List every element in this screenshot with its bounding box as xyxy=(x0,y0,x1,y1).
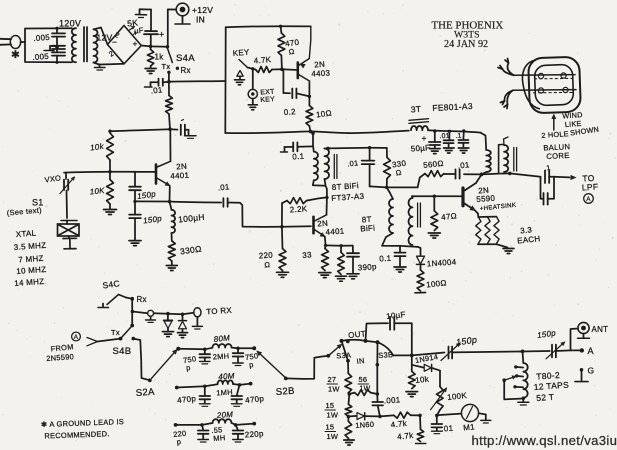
svg-text:8T BiFi: 8T BiFi xyxy=(332,181,360,192)
svg-text:50µF: 50µF xyxy=(411,143,431,153)
svg-text:OUT: OUT xyxy=(348,329,367,340)
wire to 10k bias top xyxy=(110,129,170,131)
wire keyed 12V rail bottom xyxy=(225,131,408,134)
svg-text:2N: 2N xyxy=(176,162,187,172)
svg-text:52 T: 52 T xyxy=(536,392,555,403)
capacitor .1 rail xyxy=(462,131,464,140)
wire emitter bus xyxy=(326,244,342,246)
diode 1N4004 xyxy=(420,248,422,256)
svg-text:.1: .1 xyxy=(455,133,462,140)
transistor Q4 2N5590 xyxy=(461,188,464,206)
wire secondary to bridge xyxy=(94,28,108,45)
diode 1N914 xyxy=(412,365,424,368)
svg-text:40M: 40M xyxy=(218,371,235,381)
svg-text:4.7k: 4.7k xyxy=(390,419,407,430)
svg-text:1W: 1W xyxy=(328,385,340,394)
svg-text:S3A: S3A xyxy=(336,350,351,360)
resistor 10k xyxy=(411,355,413,371)
svg-text:Ω: Ω xyxy=(264,260,271,269)
capacitor .01 rail xyxy=(448,131,450,140)
svg-text:IN: IN xyxy=(196,15,205,25)
svg-text:2.2K: 2.2K xyxy=(290,204,309,214)
svg-text:4401: 4401 xyxy=(325,226,345,236)
ground secondary xyxy=(99,65,101,68)
node 40M left xyxy=(177,386,205,387)
svg-text:✱: ✱ xyxy=(11,49,20,61)
node T80 top xyxy=(521,350,525,354)
svg-text:.01: .01 xyxy=(217,182,230,192)
arrow Tx feed xyxy=(87,338,98,342)
node 20M left xyxy=(176,424,202,426)
wire S4B to S2A xyxy=(133,339,150,381)
balun core drawing xyxy=(528,57,581,114)
resistor 100 ohm xyxy=(420,264,422,270)
svg-text:1W: 1W xyxy=(327,432,339,441)
transformer T1 left winding xyxy=(312,146,315,152)
node Rx xyxy=(130,297,134,301)
arrow wind like shown xyxy=(553,116,555,130)
svg-text:7 MHZ: 7 MHZ xyxy=(18,254,44,265)
ground 330 xyxy=(171,261,173,265)
ground 100 ohm xyxy=(415,292,426,294)
svg-text:Rx: Rx xyxy=(137,295,147,304)
node Tx keyed rail xyxy=(167,80,171,84)
node S3B out xyxy=(393,354,412,356)
variable capacitor 150p second xyxy=(551,345,553,358)
resistor 1k xyxy=(150,46,152,49)
jack RFC small xyxy=(148,310,154,316)
key jack switch xyxy=(239,60,248,68)
capacitor 750p right xyxy=(237,348,239,353)
wire S2B to S3A xyxy=(286,356,329,379)
resistor collector load Q1 xyxy=(168,82,170,96)
svg-text:MH: MH xyxy=(213,433,226,443)
svg-text:4.7K: 4.7K xyxy=(253,55,272,66)
wire to A xyxy=(556,349,571,352)
transformer T3 output winding xyxy=(498,145,500,174)
capacitor .01 coupling xyxy=(464,173,482,175)
ground crystal xyxy=(64,248,76,250)
capacitor .01 bypass xyxy=(158,79,160,86)
svg-text:M1: M1 xyxy=(463,422,476,432)
svg-text:+: + xyxy=(133,39,138,49)
wire to diode xyxy=(400,246,418,247)
ground 150p xyxy=(129,240,141,242)
resistor 4.7k shunt xyxy=(419,415,422,429)
svg-text:24 JAN 92: 24 JAN 92 xyxy=(444,39,488,50)
svg-text:ANT: ANT xyxy=(592,325,609,334)
svg-text:33: 33 xyxy=(302,250,312,260)
wire T1 top node xyxy=(328,147,370,150)
resistor 10 ohm xyxy=(308,81,310,106)
wire cap to 330 bottom xyxy=(370,186,387,187)
transformer core xyxy=(83,27,85,62)
diode clamp 2 xyxy=(182,314,184,320)
inductor 1MH 40M xyxy=(205,384,218,386)
terminal ANT xyxy=(578,322,589,333)
svg-text:XTAL: XTAL xyxy=(16,229,37,239)
inductor PA collector choke xyxy=(481,133,487,150)
inductor 2MH 80M xyxy=(205,348,213,350)
inductor T80-2 tapped xyxy=(522,351,525,363)
svg-text:Ω: Ω xyxy=(288,47,295,57)
transformer T2 primary xyxy=(387,187,393,199)
svg-text:A: A xyxy=(588,346,594,356)
capacitor .001 xyxy=(376,394,378,402)
capacitor 150p lower xyxy=(134,201,136,214)
svg-text:27: 27 xyxy=(328,375,337,384)
svg-text:Tx: Tx xyxy=(111,328,120,337)
svg-text:S2B: S2B xyxy=(275,386,295,398)
taps xyxy=(516,366,523,369)
svg-text:S4B: S4B xyxy=(113,346,132,357)
wire T1 bottom node xyxy=(325,179,326,186)
ground 47 ohm xyxy=(428,232,440,234)
svg-text:15: 15 xyxy=(326,423,335,432)
inductor .55MH 20M xyxy=(202,423,213,425)
transformer T3 core xyxy=(513,148,515,172)
svg-text:Ω: Ω xyxy=(395,168,402,178)
terminal +12V IN xyxy=(176,3,189,16)
svg-text:20M: 20M xyxy=(216,410,234,420)
wire base rail xyxy=(64,171,154,174)
ground line-filter xyxy=(50,45,57,47)
ground meter xyxy=(479,413,486,414)
transformer T2 core xyxy=(417,203,419,227)
switch S4A xyxy=(168,49,173,63)
wire tap return xyxy=(504,380,523,399)
node diode clamp 1 xyxy=(166,312,170,316)
balun lead twists upper xyxy=(503,63,515,75)
svg-text:3.3: 3.3 xyxy=(520,225,533,235)
node detector in xyxy=(347,415,351,419)
ground key jack xyxy=(235,79,245,81)
svg-text:S3B: S3B xyxy=(378,350,393,360)
resistor 4.7k series xyxy=(380,415,394,416)
svg-text:56: 56 xyxy=(359,375,368,384)
wire to RX jack xyxy=(183,313,194,315)
wire S4C to S4B xyxy=(131,299,133,326)
resistor 10k upper xyxy=(108,130,111,133)
resistor 10K lower xyxy=(107,180,114,205)
resistor 2.2K feedback xyxy=(281,203,283,227)
wire antenna line xyxy=(452,351,520,354)
transistor Q1 2N4401 xyxy=(155,165,158,184)
svg-text:.1: .1 xyxy=(544,165,551,173)
tap wiper arrow xyxy=(504,377,514,380)
node 40M right xyxy=(238,383,242,387)
svg-text:4403: 4403 xyxy=(311,69,331,79)
wire keyed rail to keyer box xyxy=(169,80,226,83)
switch S3 contacts xyxy=(340,339,344,343)
svg-text:.01: .01 xyxy=(457,160,470,170)
node diode clamp 2 xyxy=(181,313,185,317)
capacitor bypass with ground xyxy=(170,128,178,130)
node 20M right xyxy=(234,423,238,427)
wire T2 bottom node xyxy=(382,233,400,246)
svg-text:LPF: LPF xyxy=(582,182,599,193)
lever S2B-S3A with arrow xyxy=(328,346,340,356)
resistor 33 xyxy=(324,245,327,248)
svg-text:1k: 1k xyxy=(155,53,164,62)
resistor 15 1W lower xyxy=(347,417,349,422)
resistor 47 ohm xyxy=(433,195,436,198)
wire to 150p series xyxy=(412,353,445,356)
svg-text:A: A xyxy=(586,196,591,203)
resistor emitter second xyxy=(340,246,342,253)
capacitor .005 bottom xyxy=(52,51,65,53)
node collector feed xyxy=(168,127,172,131)
svg-text:KEY: KEY xyxy=(232,48,250,58)
svg-text:http://www.qsl.net/va3iul: http://www.qsl.net/va3iul xyxy=(472,433,617,448)
node Q3 emitter xyxy=(324,244,327,247)
capacitor 470p right xyxy=(237,385,240,396)
wire rail after choke xyxy=(428,130,481,132)
svg-text:.01: .01 xyxy=(439,133,450,141)
node T1 feed xyxy=(311,131,315,135)
svg-text:.001: .001 xyxy=(384,395,402,405)
ground attenuator xyxy=(347,437,349,440)
node Q3 base xyxy=(280,225,284,229)
capacitor 750p left xyxy=(204,349,206,354)
node A xyxy=(571,349,582,351)
wire divider to emitter xyxy=(135,200,170,202)
ground T80-2 xyxy=(522,398,524,401)
node 80M right xyxy=(236,347,240,351)
transistor Q2 2N4403 xyxy=(296,63,299,79)
resistor 330 interstage xyxy=(386,148,388,157)
switch S4B xyxy=(121,327,131,338)
svg-text:Rx: Rx xyxy=(181,66,191,75)
ground filter cap xyxy=(136,14,147,16)
AC plug P1 xyxy=(10,36,20,49)
capacitor 0.2 feedback xyxy=(282,69,284,93)
node A from PA xyxy=(72,332,81,341)
wire T1 primary bottom to Q3 collector xyxy=(313,180,327,197)
svg-text:220: 220 xyxy=(259,251,274,261)
capacitor 10uF monitor loop xyxy=(366,323,389,341)
capacitor .005 top xyxy=(56,28,58,33)
svg-text:220p: 220p xyxy=(245,429,265,439)
capacitor mid with ground xyxy=(52,45,65,47)
node A circled xyxy=(584,194,594,204)
svg-text:FE801-A3: FE801-A3 xyxy=(432,101,473,113)
emitter resistors 3.3 each xyxy=(477,214,479,217)
svg-text:.005: .005 xyxy=(32,52,50,62)
capacitor .01 interstage xyxy=(369,148,371,161)
node attenuator mid xyxy=(348,392,352,396)
svg-text:2MH: 2MH xyxy=(213,351,230,361)
svg-text:4.7k: 4.7k xyxy=(397,431,414,442)
node base Q1 xyxy=(108,170,112,174)
svg-text:1W: 1W xyxy=(327,411,339,420)
ground 10k xyxy=(406,391,418,393)
svg-text:10k: 10k xyxy=(415,375,430,385)
svg-text:+: + xyxy=(159,30,165,40)
capacitor 390p xyxy=(352,246,354,253)
transformer T1 right winding xyxy=(325,149,330,180)
crystal XTAL xyxy=(61,220,77,222)
capacitor 220p left xyxy=(202,425,203,430)
node Q2 base xyxy=(280,68,284,72)
resistor 470 xyxy=(279,25,282,28)
svg-text:4401: 4401 xyxy=(170,171,190,181)
ground EXT KEY xyxy=(248,104,257,106)
variable capacitor 150p xyxy=(448,347,450,359)
transformer secondary xyxy=(94,29,98,62)
arrow to 80M filter xyxy=(152,351,176,378)
ground emitter xyxy=(497,244,508,247)
capacitor .1 out A xyxy=(510,173,541,176)
capacitor under crystal xyxy=(63,237,77,239)
wire +12V rail xyxy=(141,46,167,47)
wire keyer box left edge xyxy=(225,27,227,81)
capacitor 220p right xyxy=(236,425,238,430)
ground 10K xyxy=(109,204,111,209)
resistor 27 1W xyxy=(342,341,349,361)
svg-text:390p: 390p xyxy=(358,262,378,272)
svg-text:80M: 80M xyxy=(213,333,230,344)
svg-text:S2A: S2A xyxy=(135,387,155,399)
svg-text:µF: µF xyxy=(134,26,144,36)
svg-text:S4A: S4A xyxy=(176,53,195,64)
svg-text:G: G xyxy=(588,366,595,376)
node key line xyxy=(248,68,253,69)
capacitor 0.1 rail bypass xyxy=(312,133,314,146)
transistor Q3 2N4401 xyxy=(312,217,315,233)
transformer T-line primary xyxy=(72,28,76,62)
meter M1 xyxy=(444,414,462,415)
wire receiver line xyxy=(132,312,147,314)
svg-text:p: p xyxy=(176,437,181,446)
wire AC to line filter xyxy=(25,28,72,42)
ground 220 xyxy=(282,271,284,272)
wire to LPF arrow xyxy=(554,176,570,179)
wire terminal to rail xyxy=(167,9,176,46)
svg-text:0.1: 0.1 xyxy=(292,152,305,162)
svg-text:BiFi: BiFi xyxy=(360,223,375,233)
node Q4 collector xyxy=(480,173,484,177)
resistor 560 ohm xyxy=(425,171,444,177)
capacitor 50uF xyxy=(434,131,436,142)
node cap .001 xyxy=(376,392,380,396)
svg-text:.005: .005 xyxy=(33,33,51,43)
svg-text:+12V: +12V xyxy=(192,5,213,15)
wire S3B throw down xyxy=(376,342,378,364)
svg-text:0.2: 0.2 xyxy=(284,107,297,117)
wire keyer box top edge xyxy=(226,25,311,28)
capacitor 470p left xyxy=(204,386,206,395)
node 80M in xyxy=(176,347,180,351)
capacitor 5KuF filter xyxy=(150,35,152,47)
bridge rectifier xyxy=(108,26,142,64)
resistor 15 1W upper xyxy=(348,394,351,404)
wire ANT jack to line xyxy=(571,329,578,351)
svg-text:+: + xyxy=(422,133,427,143)
svg-text:3T: 3T xyxy=(410,104,421,115)
potentiometer 100K xyxy=(439,371,441,387)
svg-text:.01: .01 xyxy=(347,158,359,168)
capacitor .1 out B parallel loop xyxy=(541,177,544,199)
transformer T1 core xyxy=(333,155,335,179)
capacitor 150p upper xyxy=(134,172,136,187)
inductor 100uH xyxy=(172,210,176,233)
balun winding wires xyxy=(514,74,575,77)
wire PA out xyxy=(482,173,499,176)
ground 1k xyxy=(150,66,152,68)
svg-text:CORE: CORE xyxy=(546,151,570,161)
svg-text:47Ω: 47Ω xyxy=(441,211,458,222)
node T3 out xyxy=(499,172,510,174)
capacitor 0.1 xyxy=(399,246,401,252)
svg-text:10K: 10K xyxy=(89,186,105,197)
svg-text:.01: .01 xyxy=(150,85,163,95)
transformer T2 secondary xyxy=(409,198,413,245)
svg-text:5590: 5590 xyxy=(476,194,496,204)
svg-text:2 HOLE: 2 HOLE xyxy=(541,129,569,140)
svg-text:1N60: 1N60 xyxy=(355,420,374,430)
wire 330 node to 560 xyxy=(387,186,418,188)
svg-text:Tx: Tx xyxy=(162,62,171,71)
resistor 330 ohm xyxy=(171,233,173,241)
svg-text:A: A xyxy=(74,334,79,341)
arrow S2B xyxy=(259,353,286,378)
diode 1N60 xyxy=(348,415,356,418)
wire collector down to Q1 xyxy=(169,129,171,161)
node T1 secondary top xyxy=(326,147,330,151)
jack EXT KEY xyxy=(252,69,254,90)
jack TO RX xyxy=(194,308,201,317)
key jack plug symbol xyxy=(237,71,243,77)
svg-text:0.1: 0.1 xyxy=(379,254,392,264)
svg-text:IN: IN xyxy=(356,356,365,366)
capacitor .01 meter xyxy=(435,414,439,418)
diode clamp 1 xyxy=(167,314,169,321)
node emitter divider xyxy=(133,200,136,203)
resistor 220 ohm xyxy=(279,249,286,271)
balun lead twists lower xyxy=(504,90,513,104)
wire T2 secondary top to Q4 base xyxy=(411,196,414,198)
svg-text:120V: 120V xyxy=(59,19,81,29)
